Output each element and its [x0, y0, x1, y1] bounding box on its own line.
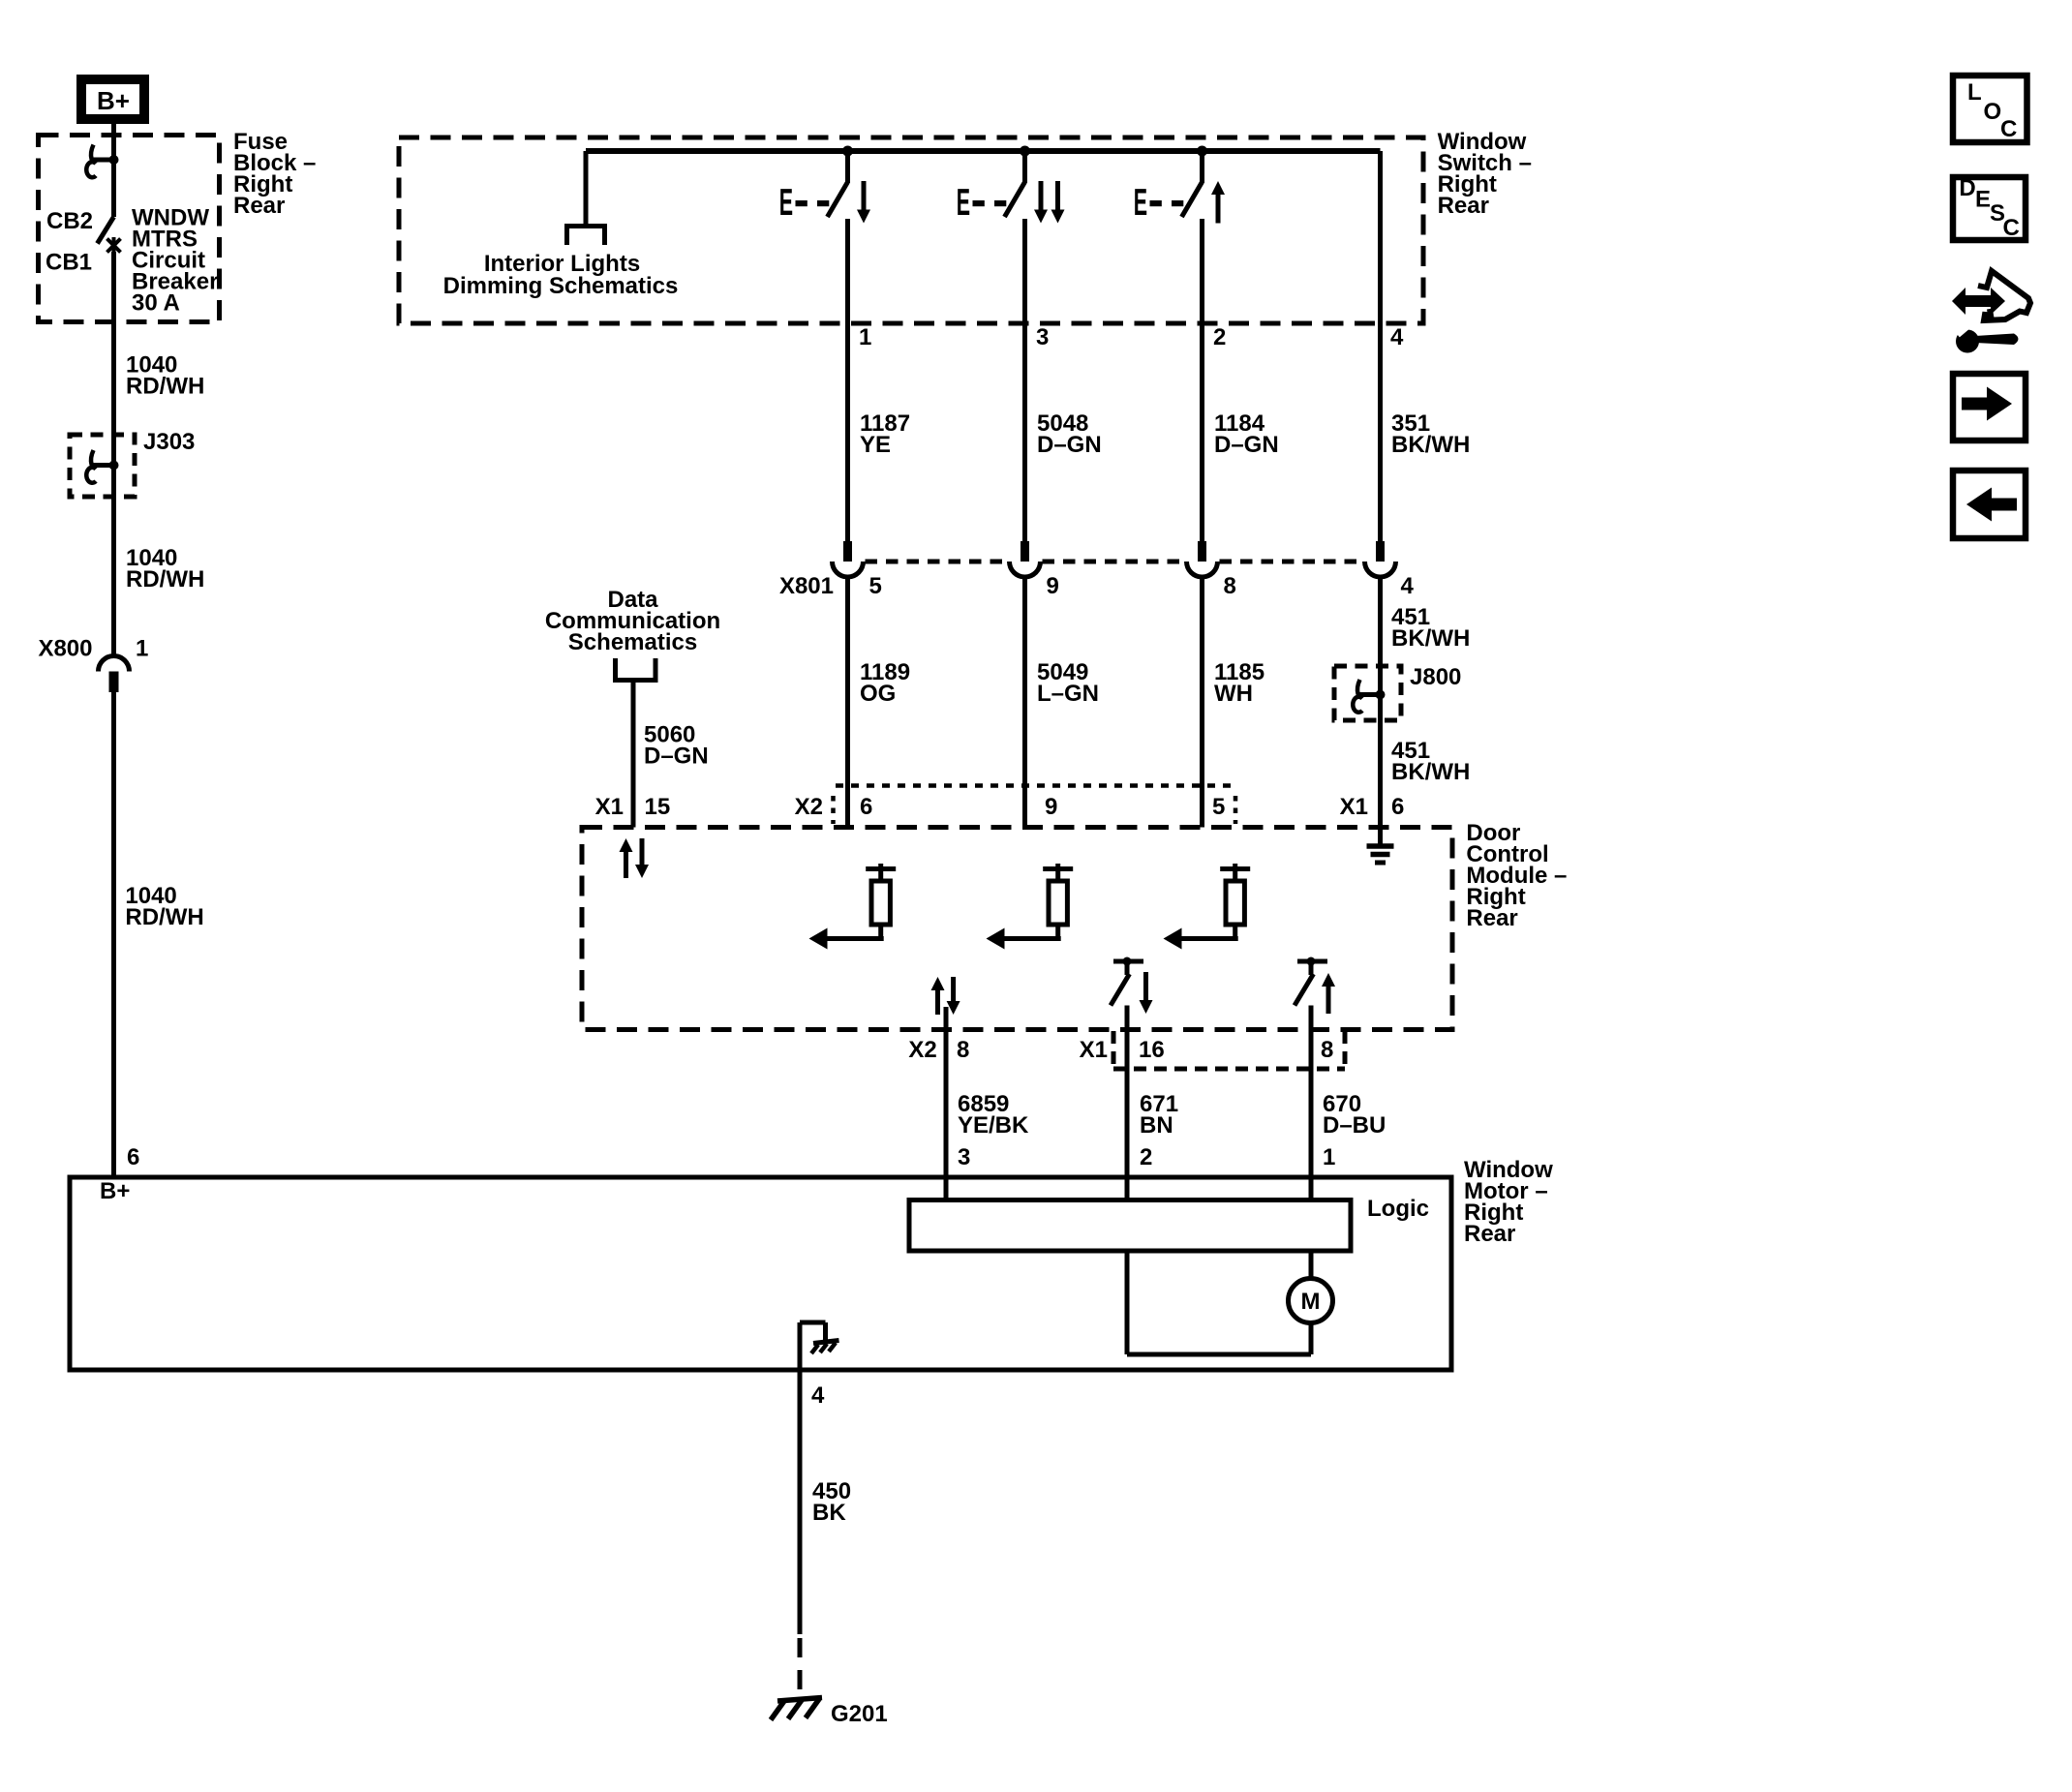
- svg-text:OG: OG: [860, 681, 896, 707]
- svg-text:J303: J303: [143, 429, 195, 455]
- svg-text:4: 4: [1401, 573, 1415, 599]
- svg-text:X2: X2: [908, 1037, 936, 1063]
- svg-text:BN: BN: [1140, 1112, 1173, 1139]
- svg-text:Rear: Rear: [1438, 193, 1489, 219]
- svg-text:6: 6: [127, 1144, 139, 1170]
- svg-text:CB2: CB2: [46, 208, 93, 234]
- svg-text:D: D: [1959, 175, 1975, 201]
- svg-text:X1: X1: [1080, 1037, 1108, 1063]
- svg-text:E: E: [779, 181, 793, 223]
- svg-text:1: 1: [859, 324, 871, 350]
- svg-text:2: 2: [1213, 324, 1226, 350]
- svg-text:RD/WH: RD/WH: [126, 566, 204, 592]
- svg-text:8: 8: [957, 1037, 969, 1063]
- svg-text:X801: X801: [779, 573, 834, 599]
- svg-text:3: 3: [1036, 324, 1049, 350]
- svg-text:O: O: [1984, 99, 2002, 125]
- svg-text:BK/WH: BK/WH: [1391, 432, 1470, 458]
- svg-text:L–GN: L–GN: [1037, 681, 1099, 707]
- svg-text:D–GN: D–GN: [1037, 432, 1102, 458]
- svg-text:E: E: [1134, 181, 1147, 223]
- svg-text:6: 6: [1391, 794, 1404, 820]
- svg-text:E: E: [1975, 187, 1991, 213]
- svg-text:BK/WH: BK/WH: [1391, 625, 1470, 652]
- svg-text:Rear: Rear: [1464, 1221, 1515, 1247]
- svg-text:30 A: 30 A: [132, 289, 180, 316]
- svg-text:9: 9: [1047, 573, 1059, 599]
- svg-text:D–GN: D–GN: [1214, 432, 1279, 458]
- svg-text:Logic: Logic: [1367, 1196, 1429, 1222]
- svg-text:YE/BK: YE/BK: [958, 1112, 1029, 1139]
- svg-text:4: 4: [1390, 324, 1404, 350]
- svg-text:RD/WH: RD/WH: [125, 904, 203, 930]
- svg-text:4: 4: [811, 1382, 825, 1409]
- svg-text:8: 8: [1321, 1037, 1333, 1063]
- svg-text:RD/WH: RD/WH: [126, 373, 204, 399]
- svg-text:2: 2: [1140, 1144, 1152, 1170]
- svg-text:15: 15: [645, 794, 671, 820]
- svg-text:E: E: [957, 181, 970, 223]
- svg-text:C: C: [2000, 116, 2017, 142]
- svg-text:C: C: [2003, 215, 2020, 241]
- svg-text:J800: J800: [1410, 664, 1461, 690]
- svg-text:X2: X2: [795, 794, 823, 820]
- svg-text:B+: B+: [100, 1178, 130, 1204]
- svg-text:1: 1: [136, 636, 148, 662]
- svg-text:5: 5: [1212, 794, 1225, 820]
- svg-text:YE: YE: [860, 432, 891, 458]
- svg-text:3: 3: [958, 1144, 970, 1170]
- svg-text:X800: X800: [38, 636, 92, 662]
- svg-text:8: 8: [1224, 573, 1236, 599]
- svg-text:Rear: Rear: [1466, 905, 1517, 931]
- svg-text:5: 5: [869, 573, 882, 599]
- svg-text:B+: B+: [97, 86, 130, 115]
- svg-text:M: M: [1301, 1289, 1321, 1315]
- svg-text:CB1: CB1: [46, 250, 92, 276]
- svg-text:BK: BK: [812, 1500, 846, 1526]
- svg-text:D–GN: D–GN: [644, 744, 709, 770]
- svg-text:D–BU: D–BU: [1323, 1112, 1386, 1139]
- svg-text:16: 16: [1139, 1037, 1165, 1063]
- svg-text:1: 1: [1323, 1144, 1335, 1170]
- svg-text:X1: X1: [1340, 794, 1368, 820]
- svg-text:Rear: Rear: [233, 193, 285, 219]
- svg-text:WH: WH: [1214, 681, 1253, 707]
- svg-text:G201: G201: [831, 1701, 888, 1727]
- svg-text:6: 6: [860, 794, 872, 820]
- svg-text:X1: X1: [595, 794, 624, 820]
- svg-text:L: L: [1967, 79, 1982, 106]
- svg-text:Dimming Schematics: Dimming Schematics: [443, 273, 679, 299]
- svg-text:BK/WH: BK/WH: [1391, 759, 1470, 785]
- svg-text:Schematics: Schematics: [568, 629, 697, 655]
- svg-text:9: 9: [1045, 794, 1057, 820]
